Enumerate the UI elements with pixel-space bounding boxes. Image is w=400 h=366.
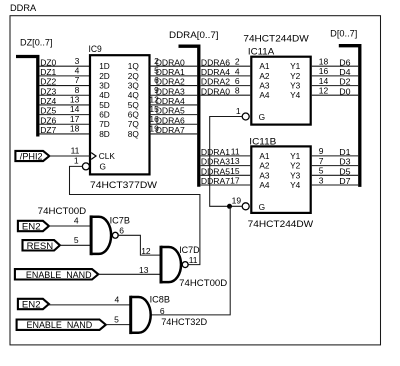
wire DZ1 xyxy=(40,75,90,77)
svg-text:G: G xyxy=(259,112,265,122)
bus D[0..7] xyxy=(339,46,360,187)
svg-text:74HCT377DW: 74HCT377DW xyxy=(90,180,157,191)
signal arrow EN2 xyxy=(18,221,49,231)
svg-text:A4: A4 xyxy=(259,180,270,190)
svg-text:DDRA2: DDRA2 xyxy=(201,77,230,87)
wire IC7D output to IC9 G xyxy=(70,166,200,264)
svg-text:D7: D7 xyxy=(339,176,351,186)
svg-text:DDRA3: DDRA3 xyxy=(201,157,230,167)
svg-text:DDRA: DDRA xyxy=(10,2,37,13)
wire DZ7 xyxy=(40,133,90,135)
wire DDRA3 to IC11B A2 xyxy=(201,165,251,167)
svg-text:5: 5 xyxy=(319,166,324,176)
wire IC9 5Q to DDRA4 xyxy=(150,104,198,106)
svg-text:DDRA0: DDRA0 xyxy=(156,57,185,67)
svg-text:7Q: 7Q xyxy=(128,119,140,129)
svg-text:D1: D1 xyxy=(339,147,351,157)
wire DDRA4 to IC11A A2 xyxy=(201,75,251,77)
clock input triangle xyxy=(91,153,96,160)
svg-text:DZ6: DZ6 xyxy=(40,115,56,125)
wire DDRA5 to IC11B A3 xyxy=(201,174,251,176)
svg-text:D[0..7]: D[0..7] xyxy=(330,29,357,39)
svg-text:A1: A1 xyxy=(259,151,270,161)
svg-text:3Q: 3Q xyxy=(128,80,140,90)
svg-text:DZ1: DZ1 xyxy=(40,67,56,77)
svg-text:Y3: Y3 xyxy=(290,81,301,91)
inverting bubble G pin IC9 xyxy=(82,163,89,170)
svg-text:5: 5 xyxy=(114,315,119,325)
wire EN2 to IC8B pin 4 xyxy=(49,304,131,306)
svg-text:DDRA0: DDRA0 xyxy=(201,86,230,96)
svg-text:8D: 8D xyxy=(99,129,110,139)
svg-text:6: 6 xyxy=(235,76,240,86)
svg-text:1: 1 xyxy=(236,106,241,116)
svg-text:4: 4 xyxy=(235,66,240,76)
svg-text:D3: D3 xyxy=(339,157,351,167)
svg-text:Y4: Y4 xyxy=(290,90,301,100)
inverting bubble G pin IC11A xyxy=(242,113,249,120)
wire DDRA7 to IC11B A4 xyxy=(201,184,251,186)
wire DDRA0 to IC11A A4 xyxy=(201,94,251,96)
svg-text:18: 18 xyxy=(70,124,80,134)
svg-text:DDRA2: DDRA2 xyxy=(156,77,185,87)
svg-text:Y4: Y4 xyxy=(290,180,301,190)
wire EN2 to IC7B pin 4 xyxy=(49,225,90,227)
svg-text:1: 1 xyxy=(74,156,79,166)
svg-text:3: 3 xyxy=(319,175,324,185)
svg-text:18: 18 xyxy=(319,57,329,67)
wire IC11A Y3 to D2 xyxy=(312,85,358,87)
bus DZ[0..7] xyxy=(16,57,38,137)
svg-text:74HCT244DW: 74HCT244DW xyxy=(243,33,308,44)
svg-text:15: 15 xyxy=(230,166,240,176)
svg-text:74HCT00D: 74HCT00D xyxy=(38,206,87,217)
wire /PHI2 to CLK pin 11 xyxy=(49,155,90,157)
svg-text:DZ[0..7]: DZ[0..7] xyxy=(20,38,53,48)
svg-text:G: G xyxy=(100,161,106,171)
bus DDRA[0..7] xyxy=(179,46,199,187)
svg-text:A4: A4 xyxy=(259,90,270,100)
signal arrow ENABLE_NAND xyxy=(15,269,98,279)
svg-text:6: 6 xyxy=(119,225,124,235)
wire IC8B output to IC11A/IC11B G pins xyxy=(210,117,243,207)
svg-text:9: 9 xyxy=(319,146,324,156)
svg-text:DZ2: DZ2 xyxy=(40,77,56,87)
wire IC9 8Q to DDRA7 xyxy=(150,133,198,135)
svg-text:A2: A2 xyxy=(259,71,270,81)
wire IC9 7Q to DDRA6 xyxy=(150,123,198,125)
junction xyxy=(227,204,232,209)
wire DDRA1 to IC11B A1 xyxy=(201,155,251,157)
wire ENABLE_NAND to IC8B pin 5 xyxy=(106,324,131,326)
buffer IC11A 74HCT244 box xyxy=(251,57,310,125)
svg-text:17: 17 xyxy=(230,176,240,186)
svg-text:4: 4 xyxy=(75,65,80,75)
svg-text:6: 6 xyxy=(160,306,165,316)
wire IC9 3Q to DDRA2 xyxy=(150,85,198,87)
signal arrow EN2 (lower) xyxy=(18,299,49,309)
wire IC11B Y4 to D7 xyxy=(312,184,358,186)
svg-text:DDRA5: DDRA5 xyxy=(156,106,185,116)
svg-text:2Q: 2Q xyxy=(128,71,140,81)
svg-text:17: 17 xyxy=(70,114,80,124)
wire IC7B out to IC7D pin 12 xyxy=(117,235,161,255)
svg-text:5D: 5D xyxy=(99,100,110,110)
svg-text:3: 3 xyxy=(75,56,80,66)
svg-text:DZ3: DZ3 xyxy=(40,86,56,96)
svg-text:12: 12 xyxy=(141,246,151,256)
svg-text:D0: D0 xyxy=(339,86,351,96)
wire IC11A Y4 to D0 xyxy=(312,94,358,96)
svg-text:4: 4 xyxy=(74,216,79,226)
wire ENABLE_NAND to IC7D pin 13 xyxy=(98,273,161,275)
wire DZ5 xyxy=(40,114,90,116)
svg-text:14: 14 xyxy=(70,104,80,114)
svg-text:74HCT244DW: 74HCT244DW xyxy=(248,219,314,230)
svg-text:CLK: CLK xyxy=(99,151,116,161)
svg-text:6Q: 6Q xyxy=(128,110,140,120)
inverting bubble G pin IC11B xyxy=(242,203,249,210)
svg-text:5Q: 5Q xyxy=(128,100,140,110)
wire IC9 6Q to DDRA5 xyxy=(150,114,198,116)
wire DDRA6 to IC11A A1 xyxy=(201,65,251,67)
svg-text:13: 13 xyxy=(70,95,80,105)
signal arrow RESN xyxy=(23,240,60,250)
svg-text:DZ0: DZ0 xyxy=(40,57,56,67)
svg-text:IC8B: IC8B xyxy=(150,294,170,305)
wire IC11A Y2 to D4 xyxy=(312,75,358,77)
svg-text:Y1: Y1 xyxy=(290,151,301,161)
nand gate IC7D xyxy=(160,246,163,284)
wire DDRA2 to IC11A A3 xyxy=(201,85,251,87)
svg-text:DDRA6: DDRA6 xyxy=(201,57,230,67)
svg-text:DZ7: DZ7 xyxy=(40,125,56,135)
svg-text:RESN: RESN xyxy=(27,240,54,251)
svg-text:4D: 4D xyxy=(99,90,110,100)
svg-text:EN2: EN2 xyxy=(22,220,41,231)
svg-text:A3: A3 xyxy=(259,170,270,180)
svg-text:D6: D6 xyxy=(339,57,351,67)
svg-text:7: 7 xyxy=(319,156,324,166)
svg-text:8Q: 8Q xyxy=(128,129,140,139)
wire DZ4 xyxy=(40,104,90,106)
wire RESN to IC7B pin 5 xyxy=(60,244,90,246)
svg-text:IC9: IC9 xyxy=(89,44,102,54)
svg-text:A2: A2 xyxy=(259,161,270,171)
svg-text:1Q: 1Q xyxy=(128,61,140,71)
svg-text:DZ4: DZ4 xyxy=(40,96,56,106)
wire IC9 4Q to DDRA3 xyxy=(150,94,198,96)
svg-text:11: 11 xyxy=(71,145,80,155)
svg-text:Y1: Y1 xyxy=(290,61,301,71)
svg-text:ENABLE NAND: ENABLE NAND xyxy=(26,269,92,280)
svg-text:1D: 1D xyxy=(99,61,110,71)
svg-text:DDRA3: DDRA3 xyxy=(156,86,185,96)
svg-text:6D: 6D xyxy=(99,110,110,120)
svg-text:DDRA6: DDRA6 xyxy=(156,115,185,125)
svg-text:74HCT32D: 74HCT32D xyxy=(161,317,207,328)
svg-text:5: 5 xyxy=(74,235,79,245)
svg-text:A3: A3 xyxy=(259,81,270,91)
svg-text:D4: D4 xyxy=(339,67,351,77)
wire IC11B Y1 to D1 xyxy=(312,155,358,157)
svg-text:13: 13 xyxy=(230,156,240,166)
svg-text:EN2: EN2 xyxy=(22,298,41,309)
svg-text:DDRA1: DDRA1 xyxy=(156,67,185,77)
svg-text:11: 11 xyxy=(231,146,240,156)
wire IC11A Y1 to D6 xyxy=(312,65,358,67)
wire DZ2 xyxy=(40,85,90,87)
signal arrow ENABLE_NAND (lower) xyxy=(17,320,106,330)
svg-text:11: 11 xyxy=(189,255,198,265)
svg-text:/PHI2: /PHI2 xyxy=(20,150,43,161)
svg-text:13: 13 xyxy=(139,265,149,275)
svg-text:DDRA5: DDRA5 xyxy=(201,166,230,176)
svg-text:DDRA7: DDRA7 xyxy=(156,125,185,135)
svg-text:ENABLE NAND: ENABLE NAND xyxy=(27,319,93,330)
svg-text:Y2: Y2 xyxy=(290,161,301,171)
wire DZ6 xyxy=(40,123,90,125)
svg-text:8: 8 xyxy=(75,85,80,95)
svg-text:D5: D5 xyxy=(339,166,351,176)
wire DZ0 xyxy=(40,65,90,67)
svg-text:DZ5: DZ5 xyxy=(40,106,56,116)
nand gate IC7B xyxy=(90,215,93,255)
svg-text:7D: 7D xyxy=(99,119,110,129)
svg-text:A1: A1 xyxy=(259,61,270,71)
svg-text:2D: 2D xyxy=(99,71,110,81)
wire IC11B Y2 to D3 xyxy=(312,165,358,167)
svg-text:8: 8 xyxy=(235,86,240,96)
svg-text:DDRA[0..7]: DDRA[0..7] xyxy=(169,30,219,40)
svg-text:14: 14 xyxy=(319,76,329,86)
svg-text:12: 12 xyxy=(319,86,329,96)
buffer IC11B 74HCT244 box xyxy=(251,146,310,213)
wire IC9 1Q to DDRA0 xyxy=(150,65,198,67)
svg-text:DDRA4: DDRA4 xyxy=(201,67,230,77)
wire IC9 2Q to DDRA1 xyxy=(150,75,198,77)
signal arrow /PHI2 xyxy=(15,151,49,161)
svg-text:Y2: Y2 xyxy=(290,71,301,81)
svg-text:4: 4 xyxy=(114,295,119,305)
wire IC11B Y3 to D5 xyxy=(312,174,358,176)
svg-text:74HCT00D: 74HCT00D xyxy=(179,278,227,289)
or gate IC8B xyxy=(129,296,132,334)
wire IC8B output up to G junction xyxy=(151,206,230,315)
svg-text:DDRA4: DDRA4 xyxy=(156,96,185,106)
flip-flop U IC9 74HCT377 box xyxy=(90,55,150,174)
svg-text:7: 7 xyxy=(75,75,80,85)
svg-text:4Q: 4Q xyxy=(128,90,140,100)
svg-text:DDRA7: DDRA7 xyxy=(201,176,230,186)
svg-text:19: 19 xyxy=(232,196,242,206)
svg-text:G: G xyxy=(259,202,265,212)
svg-text:16: 16 xyxy=(319,66,329,76)
wire DZ3 xyxy=(40,94,90,96)
svg-text:2: 2 xyxy=(235,57,240,67)
svg-text:D2: D2 xyxy=(339,77,351,87)
svg-text:Y3: Y3 xyxy=(290,170,301,180)
svg-text:DDRA1: DDRA1 xyxy=(201,147,230,157)
svg-text:3D: 3D xyxy=(99,80,110,90)
